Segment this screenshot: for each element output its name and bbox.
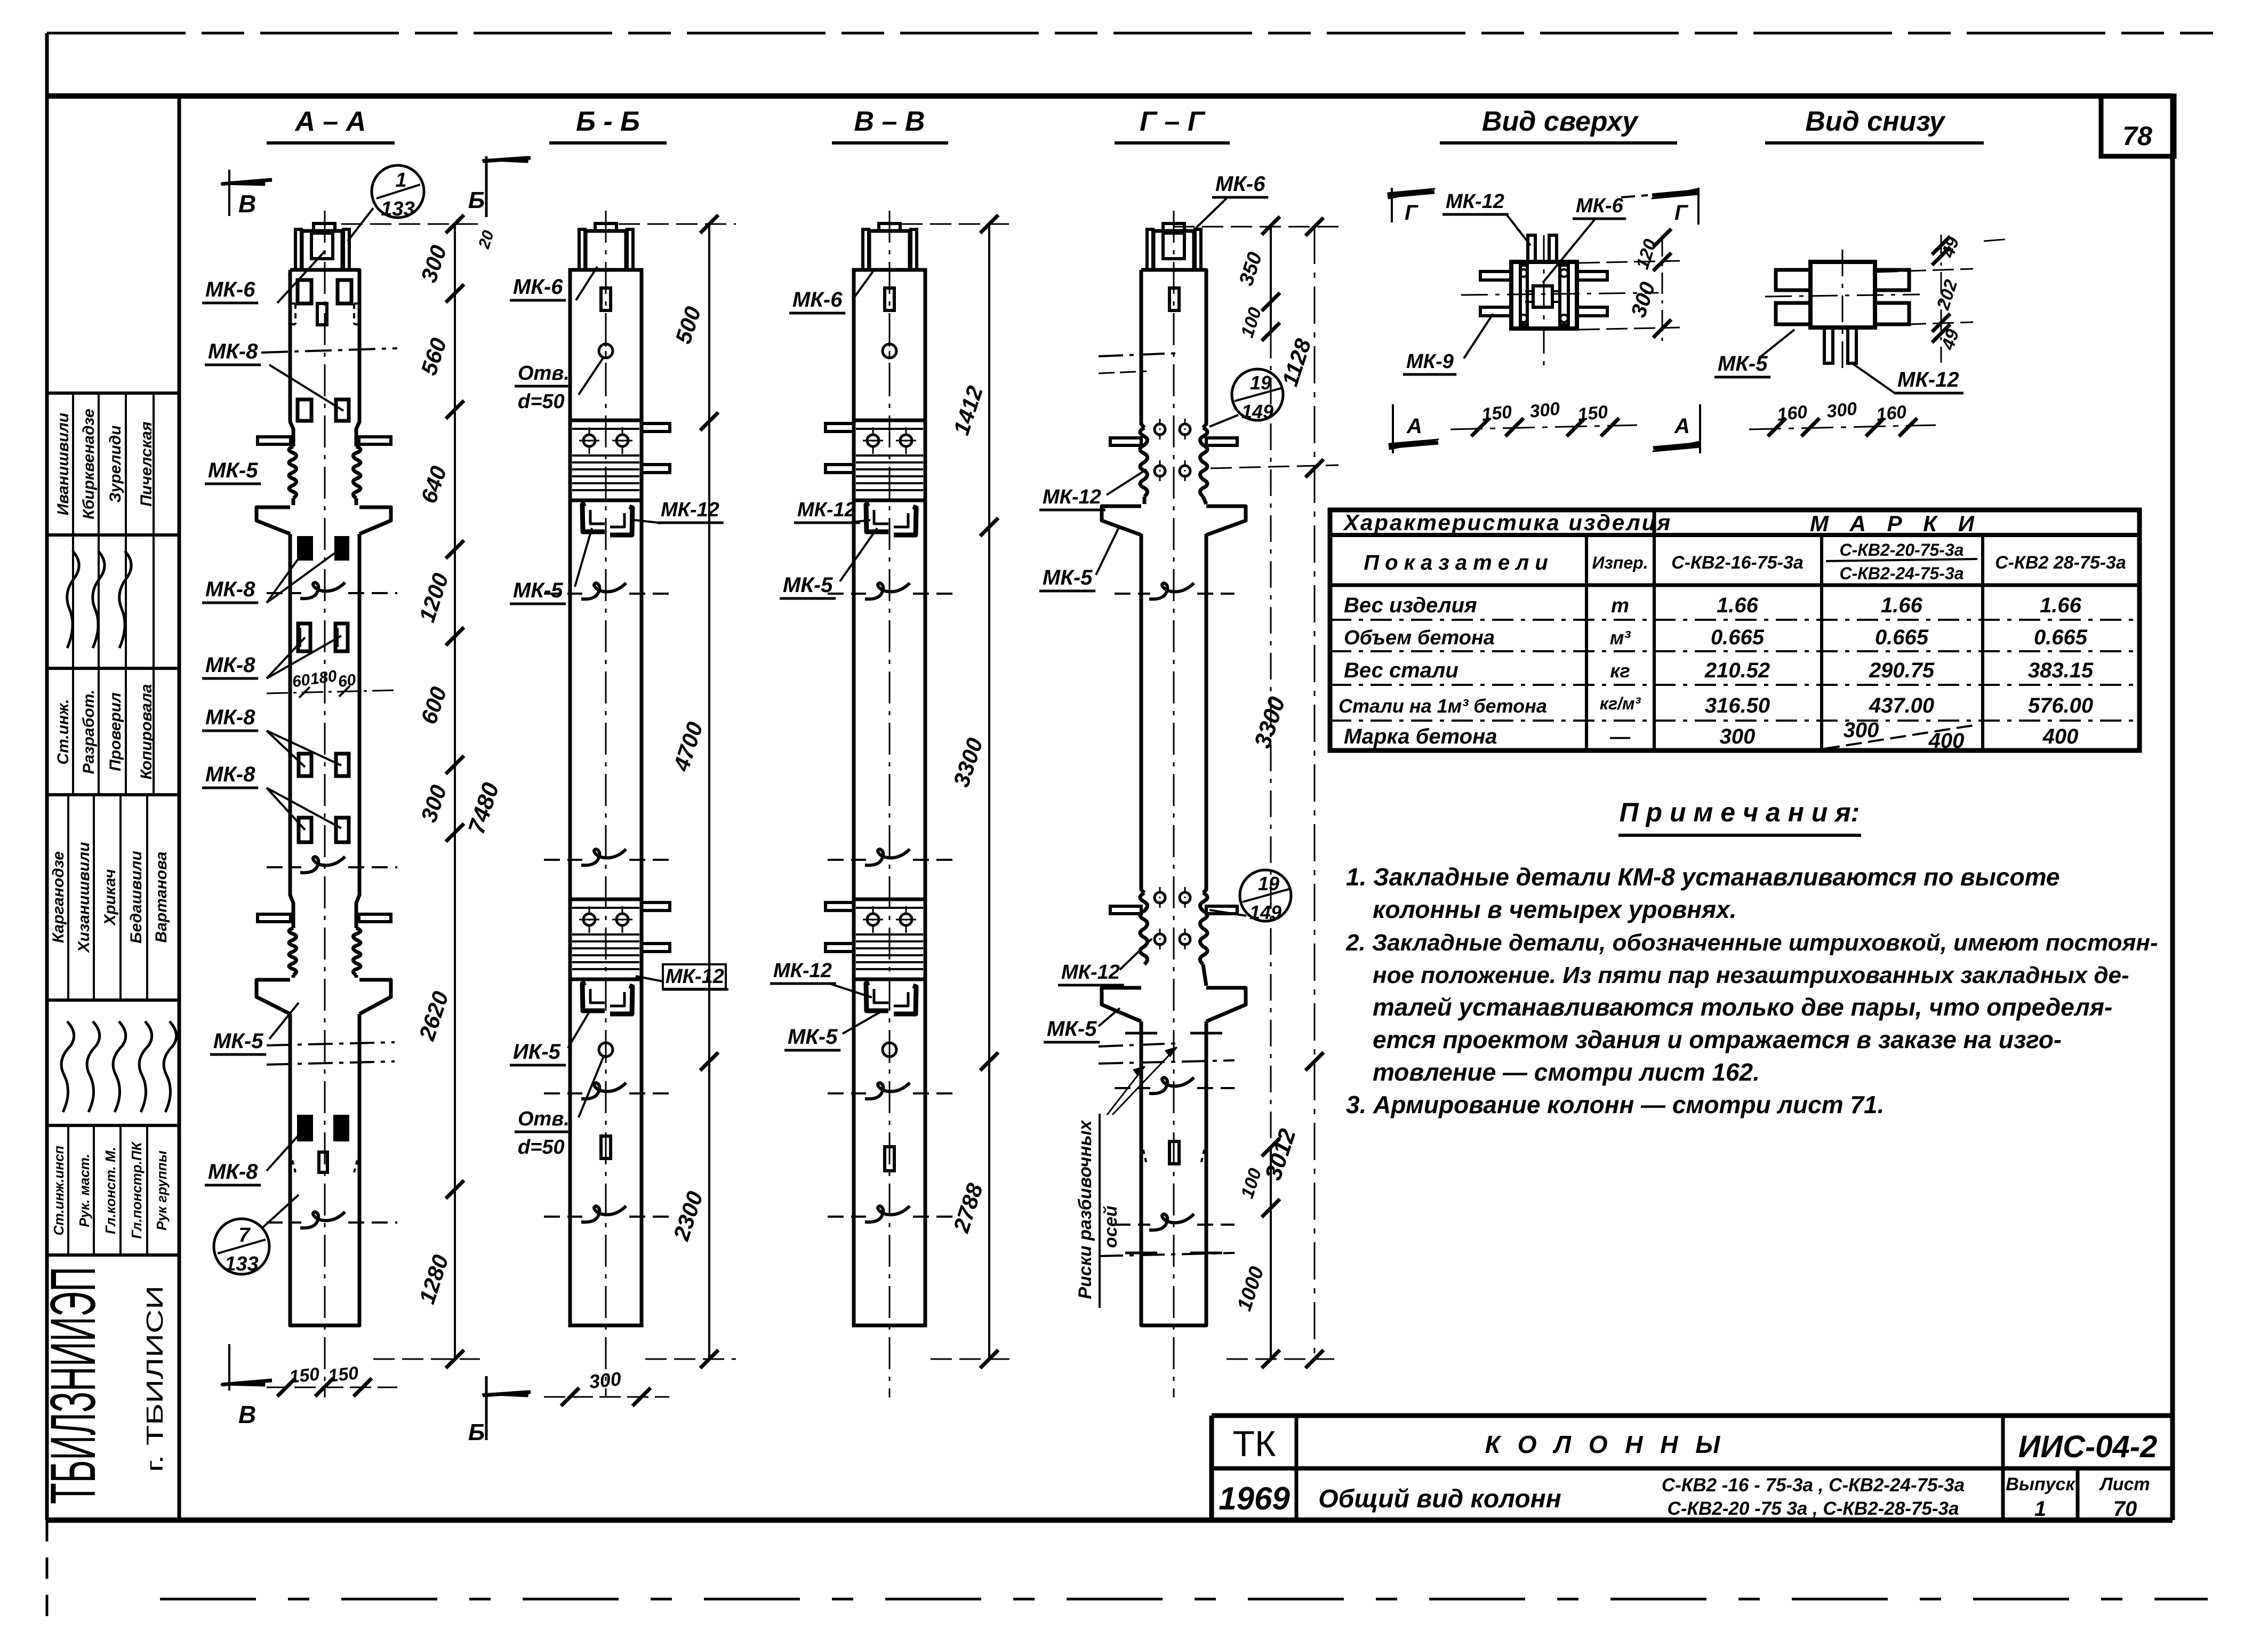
column A-A dim ext lines [341, 223, 480, 225]
column V-V dim ext lines [901, 223, 1016, 225]
svg-text:С-КВ2-16-75-3а: С-КВ2-16-75-3а [1671, 553, 1804, 573]
svg-text:Б: Б [468, 187, 485, 213]
svg-text:0.665: 0.665 [2034, 626, 2088, 649]
table header row line [1330, 533, 2139, 537]
column G-G detail circle 19/149 level 1 [1232, 369, 1283, 420]
column G-G embed plate top [1169, 288, 1179, 310]
svg-text:149: 149 [1241, 401, 1273, 422]
column B-B break mark 3 [544, 1092, 582, 1094]
svg-text:Хизанишвили: Хизанишвили [75, 842, 93, 954]
svg-text:МК-9: МК-9 [1406, 350, 1454, 373]
column A-A cap body [302, 231, 342, 270]
svg-text:МК-8: МК-8 [205, 763, 255, 786]
column A-A corbel left level 2 [257, 980, 290, 1014]
svg-text:150: 150 [288, 1364, 320, 1387]
column B-B break mark 4 [544, 1216, 582, 1218]
column G-G corbel right level 2 [1206, 988, 1246, 1021]
table outer border [1330, 510, 2139, 750]
column A-A corbel right level 2 [359, 980, 391, 1014]
svg-text:П о к а з а т е л и: П о к а з а т е л и [1364, 551, 1548, 574]
svg-text:МК-12: МК-12 [1446, 190, 1504, 213]
column V-V hole bottom [883, 1043, 896, 1057]
column A-A edge notches [290, 302, 295, 305]
bottom view bottom dim 160 300 160 [1749, 425, 1936, 429]
column A-A embed plates top pair MK-6 level [298, 280, 311, 303]
svg-text:МК-12: МК-12 [666, 965, 724, 988]
bottom view bars left [1776, 270, 1810, 290]
column V-V channels level 2 [866, 982, 888, 1011]
bottom view square body [1810, 262, 1875, 327]
svg-text:Рук группы: Рук группы [154, 1150, 170, 1231]
svg-text:осей: осей [1101, 1205, 1121, 1248]
column G-G zigzag edges level 2 [1140, 893, 1148, 964]
svg-text:7: 7 [238, 1224, 251, 1247]
column A-A centerline [324, 211, 326, 1397]
column B-B band level 2 [570, 899, 642, 979]
svg-text:МК-6: МК-6 [205, 278, 255, 301]
top view section mark A left [1392, 404, 1394, 453]
column G-G top section dash line [1099, 353, 1179, 356]
svg-text:Ст.инж.: Ст.инж. [54, 699, 72, 764]
svg-text:19: 19 [1250, 372, 1271, 394]
svg-text:133: 133 [381, 198, 414, 220]
column G-G cap body [1153, 231, 1194, 270]
svg-text:Характеристика изделия: Характеристика изделия [1343, 510, 1672, 535]
column B-B cap lifting plate [595, 223, 616, 231]
svg-text:0.665: 0.665 [1875, 626, 1929, 649]
left title block sub-columns section3 [67, 795, 69, 1000]
main frame bottom [47, 1517, 2173, 1523]
column B-B channels level 1 [582, 504, 605, 532]
svg-text:Карганодзе: Карганодзе [50, 851, 67, 943]
svg-text:МК-8: МК-8 [205, 706, 255, 729]
title block middle line [1212, 1466, 2173, 1471]
column B-B channels level 2 [582, 982, 605, 1011]
column G-G body outline [1141, 270, 1206, 1325]
column A-A corbel right level 1 [359, 507, 391, 534]
column G-G bolt circles level 1 [1155, 424, 1165, 435]
column G-G console bars level 1 [1110, 438, 1141, 445]
column A-A section mark V top [228, 170, 230, 216]
column A-A console bars MK-5 level 2 [258, 914, 291, 922]
outer top dashed border [47, 32, 2213, 35]
svg-text:Кбирквенадзе: Кбирквенадзе [80, 409, 98, 519]
svg-text:Отв.: Отв. [518, 1108, 570, 1130]
svg-text:210.52: 210.52 [1704, 659, 1770, 682]
column A-A section mark V bottom [228, 1344, 230, 1391]
svg-text:товление — смотри лист 162.: товление — смотри лист 162. [1373, 1058, 1760, 1086]
bottom view bars bottom [1824, 327, 1833, 363]
svg-text:МК-8: МК-8 [205, 653, 255, 677]
outer left border [45, 33, 49, 1520]
column A-A zigzag edges level 1 [289, 446, 296, 498]
column V-V embed plate bottom [885, 1147, 894, 1171]
svg-text:—: — [1609, 726, 1631, 748]
svg-text:Ст.инж.инсп: Ст.инж.инсп [51, 1146, 67, 1236]
column V-V body outline [854, 270, 925, 1325]
svg-text:А: А [1674, 414, 1690, 438]
top view bottom dim 150 300 150 [1450, 425, 1637, 429]
svg-text:МК-5: МК-5 [783, 573, 833, 597]
main frame right [2170, 96, 2175, 1520]
svg-text:2. Закладные детали, обознач: 2. Закладные детали, обозначенные штрихо… [1345, 930, 2158, 956]
svg-text:78: 78 [2122, 121, 2152, 151]
svg-text:Разработ.: Разработ. [80, 690, 98, 774]
column A-A body outline [290, 270, 359, 1325]
svg-text:1: 1 [395, 169, 406, 191]
column G-G corbel left level 2 [1102, 988, 1141, 1021]
svg-text:180: 180 [309, 667, 338, 689]
column G-G break mark 1 [1115, 593, 1150, 595]
svg-text:МК-5: МК-5 [788, 1025, 838, 1049]
svg-text:МК-8: МК-8 [205, 578, 255, 601]
svg-text:Проверил: Проверил [107, 692, 124, 771]
svg-text:1.66: 1.66 [1881, 594, 1923, 617]
svg-text:Б - Б: Б - Б [576, 106, 640, 137]
svg-text:300: 300 [1844, 718, 1879, 742]
column V-V break mark 2 [828, 859, 866, 861]
column A-A embed plates pair 2 [298, 399, 311, 421]
table row line under headers [1330, 584, 2139, 587]
svg-text:Хрикач: Хрикач [101, 869, 119, 926]
svg-text:А: А [1406, 414, 1422, 438]
column B-B body outline [570, 270, 642, 1325]
svg-text:Г: Г [1405, 201, 1419, 225]
column V-V dimension chain [988, 224, 990, 1359]
column B-B cap side strips [579, 229, 585, 270]
column B-B dimension chain [708, 224, 710, 1359]
column A-A cap side strips [295, 229, 301, 270]
svg-text:Г – Г: Г – Г [1140, 106, 1206, 137]
svg-text:300: 300 [1529, 398, 1561, 422]
column G-G outer dimension chain [1314, 227, 1316, 1359]
svg-text:1969: 1969 [1219, 1481, 1290, 1516]
column V-V cap lifting plate [879, 223, 900, 231]
svg-text:Гл.понстр.ПК: Гл.понстр.ПК [129, 1141, 145, 1239]
left title block sub-columns section2 [72, 535, 74, 668]
svg-text:МК-6: МК-6 [1215, 172, 1265, 196]
page number box 78 [2101, 96, 2174, 156]
svg-text:кг: кг [1610, 660, 1630, 682]
top view section mark G right [1697, 188, 1700, 225]
column G-G dim ext lines [1173, 226, 1339, 228]
column G-G embed plate bottom [1169, 1141, 1179, 1164]
column B-B band level 1 [570, 420, 642, 500]
svg-text:С-КВ2-24-75-3а: С-КВ2-24-75-3а [1839, 564, 1964, 583]
left title block roles row2 [67, 1125, 69, 1255]
svg-text:Вартанова: Вартанова [153, 852, 170, 943]
svg-text:ИИС-04-2: ИИС-04-2 [2018, 1429, 2158, 1464]
svg-text:ИК-5: ИК-5 [513, 1040, 561, 1064]
svg-text:d=50: d=50 [518, 390, 565, 413]
column B-B embed plate bottom [601, 1136, 611, 1158]
svg-text:1: 1 [2034, 1497, 2046, 1521]
svg-text:Вид сверху: Вид сверху [1482, 106, 1639, 137]
top view right dim 120 300 [1662, 235, 1663, 347]
svg-text:300: 300 [588, 1368, 622, 1393]
column V-V band level 1 [854, 420, 925, 500]
svg-text:ется проектом здания и отр: ется проектом здания и отражается в зака… [1373, 1026, 2062, 1053]
left block divider vertical [178, 96, 181, 1520]
svg-text:С-КВ2 28-75-3а: С-КВ2 28-75-3а [1995, 553, 2126, 573]
column A-A section mark B top [485, 156, 488, 217]
svg-text:Марка бетона: Марка бетона [1344, 725, 1497, 748]
svg-text:1.66: 1.66 [2040, 594, 2082, 617]
svg-text:г. ТБИЛИСИ: г. ТБИЛИСИ [142, 1285, 168, 1472]
svg-text:160: 160 [1876, 402, 1908, 425]
column B-B dim ext lines [619, 223, 736, 225]
top view center plate MK-6 [1533, 286, 1552, 307]
column A-A corbel left level 1 [257, 507, 290, 534]
outer left border dashed tail [46, 1520, 49, 1628]
svg-text:Бедашвили: Бедашвили [127, 851, 145, 944]
column A-A break mark 3 [267, 1221, 301, 1224]
svg-text:С-КВ2-20 -75 3а , С-КВ2-28-75: С-КВ2-20 -75 3а , С-КВ2-28-75-3а [1668, 1498, 1959, 1519]
left title block horizontal dividers [47, 391, 179, 395]
top view square body [1511, 262, 1577, 329]
svg-text:М А Р К И: М А Р К И [1810, 511, 1982, 536]
left title block signatures row1 [67, 551, 79, 648]
svg-text:ТБИЛЗНИИЭП: ТБИЛЗНИИЭП [37, 1267, 109, 1504]
bottom view centerlines [1765, 294, 1920, 297]
top view centerlines [1461, 293, 1658, 295]
column G-G bolt circles level 2 [1155, 892, 1165, 903]
svg-text:150: 150 [1577, 402, 1609, 425]
column G-G centerline [1173, 211, 1175, 1397]
svg-text:П р и м е ч а н и я:: П р и м е ч а н и я: [1620, 797, 1860, 827]
svg-text:Объем бетона: Объем бетона [1344, 627, 1495, 649]
svg-text:талей устанавливаются только: талей устанавливаются только две пары, ч… [1373, 993, 2112, 1021]
column V-V embed plate top [885, 288, 894, 310]
column G-G risks section dashes [1099, 1043, 1179, 1046]
svg-text:316.50: 316.50 [1705, 694, 1770, 717]
svg-text:МК-5: МК-5 [1047, 1017, 1097, 1041]
svg-text:МК-12: МК-12 [1897, 368, 1959, 391]
svg-text:МК-12: МК-12 [1043, 486, 1101, 508]
left title block roles row1 [72, 668, 74, 795]
column A-A zigzag edges level 2 [289, 928, 296, 975]
column A-A console bars MK-5 level 1 [258, 437, 291, 444]
column A-A detail circle 1/133 [372, 165, 424, 218]
top view bars top [1528, 235, 1535, 262]
column V-V cap body [869, 231, 910, 270]
svg-text:МК-12: МК-12 [661, 499, 719, 521]
bottom view right dims 49 202 49 [1941, 235, 1942, 363]
svg-text:Г: Г [1674, 201, 1689, 225]
svg-text:Изпер.: Изпер. [1592, 553, 1648, 572]
svg-text:Риски разбивочных: Риски разбивочных [1075, 1119, 1095, 1299]
column B-B hole d50 top [599, 344, 613, 358]
top view bars right [1577, 271, 1607, 280]
svg-text:400: 400 [1928, 729, 1965, 753]
svg-text:290.75: 290.75 [1869, 659, 1935, 682]
svg-text:кг/м³: кг/м³ [1600, 694, 1641, 713]
column A-A cap lifting plate [314, 223, 335, 231]
outer bottom dashed border [160, 1598, 2208, 1601]
svg-text:Зурелиди: Зурелиди [107, 425, 124, 502]
svg-text:300: 300 [1720, 725, 1756, 748]
column V-V channels level 1 [866, 504, 888, 532]
column A-A hatched plates pair [299, 538, 311, 559]
column B-B centerline [605, 211, 607, 1397]
top view inner vertical plates [1520, 265, 1527, 325]
title block verticals [1209, 1416, 1214, 1520]
column V-V break mark 1 [828, 593, 866, 595]
top view bars left [1480, 271, 1511, 280]
svg-text:0.665: 0.665 [1711, 626, 1765, 649]
svg-text:Лист: Лист [2098, 1474, 2150, 1495]
column A-A embed plate center bottom [319, 1152, 327, 1172]
column A-A embed plates pair 6 hatched [299, 1116, 311, 1140]
svg-text:МК-6: МК-6 [792, 288, 843, 311]
svg-text:383.15: 383.15 [2028, 659, 2094, 682]
svg-text:МК-12: МК-12 [773, 960, 832, 982]
column A-A break mark 2 [267, 866, 301, 868]
svg-text:150: 150 [1481, 402, 1513, 425]
column B-B break mark 2 [544, 859, 582, 861]
table column dividers [1585, 535, 1588, 750]
left title block sub-columns section1 [72, 393, 74, 535]
svg-text:колонны в четырех уровнях.: колонны в четырех уровнях. [1373, 896, 1737, 923]
column B-B embed plate top [601, 288, 611, 310]
svg-text:Б: Б [468, 1419, 485, 1445]
column A-A embed plate center [317, 303, 327, 325]
column G-G console bars level 2 [1110, 906, 1141, 914]
column A-A section mark B bottom [485, 1376, 488, 1440]
column B-B break mark 1 [544, 593, 582, 595]
svg-text:70: 70 [2113, 1497, 2137, 1521]
svg-text:ное положение. Из пяти пар: ное положение. Из пяти пар незаштрихован… [1373, 962, 2129, 988]
svg-text:МК-8: МК-8 [208, 1160, 258, 1184]
column B-B cap body [586, 231, 626, 270]
svg-text:Вид снизу: Вид снизу [1805, 106, 1946, 137]
column B-B bottom dim 300 [544, 1396, 669, 1398]
svg-text:Иванишвили: Иванишвили [54, 413, 72, 516]
column A-A embed plates pair 3 [298, 624, 310, 651]
svg-text:м³: м³ [1610, 627, 1631, 649]
svg-text:149: 149 [1249, 901, 1281, 923]
svg-text:т: т [1611, 595, 1629, 617]
column G-G detail circle 19/149 level 2 [1240, 870, 1291, 921]
svg-text:Пичелская: Пичелская [138, 421, 155, 507]
svg-text:400: 400 [2042, 725, 2079, 748]
svg-text:С-КВ2-20-75-3а: С-КВ2-20-75-3а [1839, 540, 1964, 560]
column V-V centerline [889, 211, 891, 1397]
svg-text:Стали на 1м³ бетона: Стали на 1м³ бетона [1339, 695, 1547, 717]
column A-A section line B-B horizontal [261, 348, 397, 353]
svg-text:Рук. маст.: Рук. маст. [76, 1154, 92, 1227]
svg-text:Вес изделия: Вес изделия [1344, 594, 1477, 617]
svg-text:1. Закладные детали КМ-8 ус: 1. Закладные детали КМ-8 устанавливаются… [1346, 863, 2059, 891]
column G-G zigzag edges level 1 [1140, 428, 1148, 497]
svg-text:МК-12: МК-12 [1061, 961, 1120, 984]
column G-G cap side strips [1147, 229, 1153, 270]
svg-text:160: 160 [1776, 402, 1808, 425]
svg-text:МК-6: МК-6 [513, 275, 563, 299]
svg-text:В – В: В – В [854, 106, 925, 137]
svg-text:МК-5: МК-5 [213, 1029, 263, 1053]
column V-V break mark 3 [828, 1092, 866, 1094]
svg-text:МК-6: МК-6 [1576, 195, 1624, 217]
svg-text:300: 300 [1826, 398, 1858, 422]
svg-text:Общий вид колонн: Общий вид колонн [1318, 1485, 1561, 1513]
column G-G inner dimension chain [1270, 226, 1272, 332]
column A-A bottom dim 150 150 [267, 1387, 397, 1388]
column G-G corbel left level 1 [1102, 506, 1141, 535]
svg-text:ТК: ТК [1232, 1424, 1276, 1464]
column G-G cap lifting plate [1163, 223, 1184, 231]
svg-text:Отв.: Отв. [518, 362, 570, 385]
svg-text:В: В [238, 190, 256, 218]
svg-text:133: 133 [225, 1253, 258, 1275]
title block top line [1212, 1413, 2173, 1418]
table row dashed lines [1330, 619, 2139, 621]
top view section mark G left [1391, 188, 1393, 222]
column G-G break mark 3 [1115, 1224, 1150, 1226]
column A-A break mark 1 [267, 592, 301, 594]
main frame top [47, 93, 2173, 99]
column A-A embed plates pair 4 [299, 754, 311, 776]
column V-V band level 2 [854, 899, 925, 979]
top view section mark A right [1699, 404, 1701, 453]
svg-text:437.00: 437.00 [1869, 694, 1934, 717]
svg-text:576.00: 576.00 [2028, 694, 2093, 717]
svg-text:3. Армирование колонн — смотр: 3. Армирование колонн — смотри лист 71. [1346, 1091, 1884, 1118]
svg-text:19: 19 [1258, 873, 1279, 894]
column V-V cap side strips [863, 229, 869, 270]
svg-text:К О Л О Н Н Ы: К О Л О Н Н Ы [1485, 1431, 1726, 1458]
svg-text:d=50: d=50 [518, 1136, 565, 1158]
column V-V hole top [883, 344, 896, 358]
svg-text:В: В [238, 1401, 256, 1428]
svg-text:А – А: А – А [294, 106, 366, 137]
svg-text:Копировала: Копировала [138, 684, 155, 779]
column G-G corbel right level 1 [1206, 506, 1246, 535]
column A-A lower dashed section lines [267, 1042, 395, 1045]
svg-text:150: 150 [327, 1363, 359, 1386]
table header divider vertical [1653, 510, 1656, 535]
svg-text:Гл.конст. М.: Гл.конст. М. [102, 1147, 118, 1234]
svg-text:МК-5: МК-5 [1043, 566, 1093, 589]
column G-G break mark 2 [1115, 1087, 1150, 1089]
svg-text:С-КВ2 -16 - 75-3а , С-КВ2-24-: С-КВ2 -16 - 75-3а , С-КВ2-24-75-3а [1662, 1475, 1965, 1496]
svg-text:МК-5: МК-5 [513, 579, 563, 602]
svg-text:МК-12: МК-12 [797, 499, 856, 521]
column A-A dimension chain [454, 224, 456, 1359]
column A-A embed plates pair 5 [299, 818, 311, 842]
svg-text:МК-5: МК-5 [208, 459, 258, 482]
svg-text:1.66: 1.66 [1717, 594, 1759, 617]
bottom view bars right [1875, 270, 1909, 290]
svg-text:МК-8: МК-8 [208, 340, 258, 363]
svg-text:Вес стали: Вес стали [1344, 659, 1458, 682]
column G-G bottom risk ticks [1125, 1252, 1157, 1255]
left title block signatures row2 [61, 1021, 74, 1112]
column B-B hole d50 bottom [599, 1043, 613, 1057]
svg-text:Выпуск: Выпуск [2006, 1474, 2075, 1495]
column V-V break mark 4 [828, 1216, 866, 1218]
column A-A detail circle 7/133 [214, 1219, 269, 1274]
